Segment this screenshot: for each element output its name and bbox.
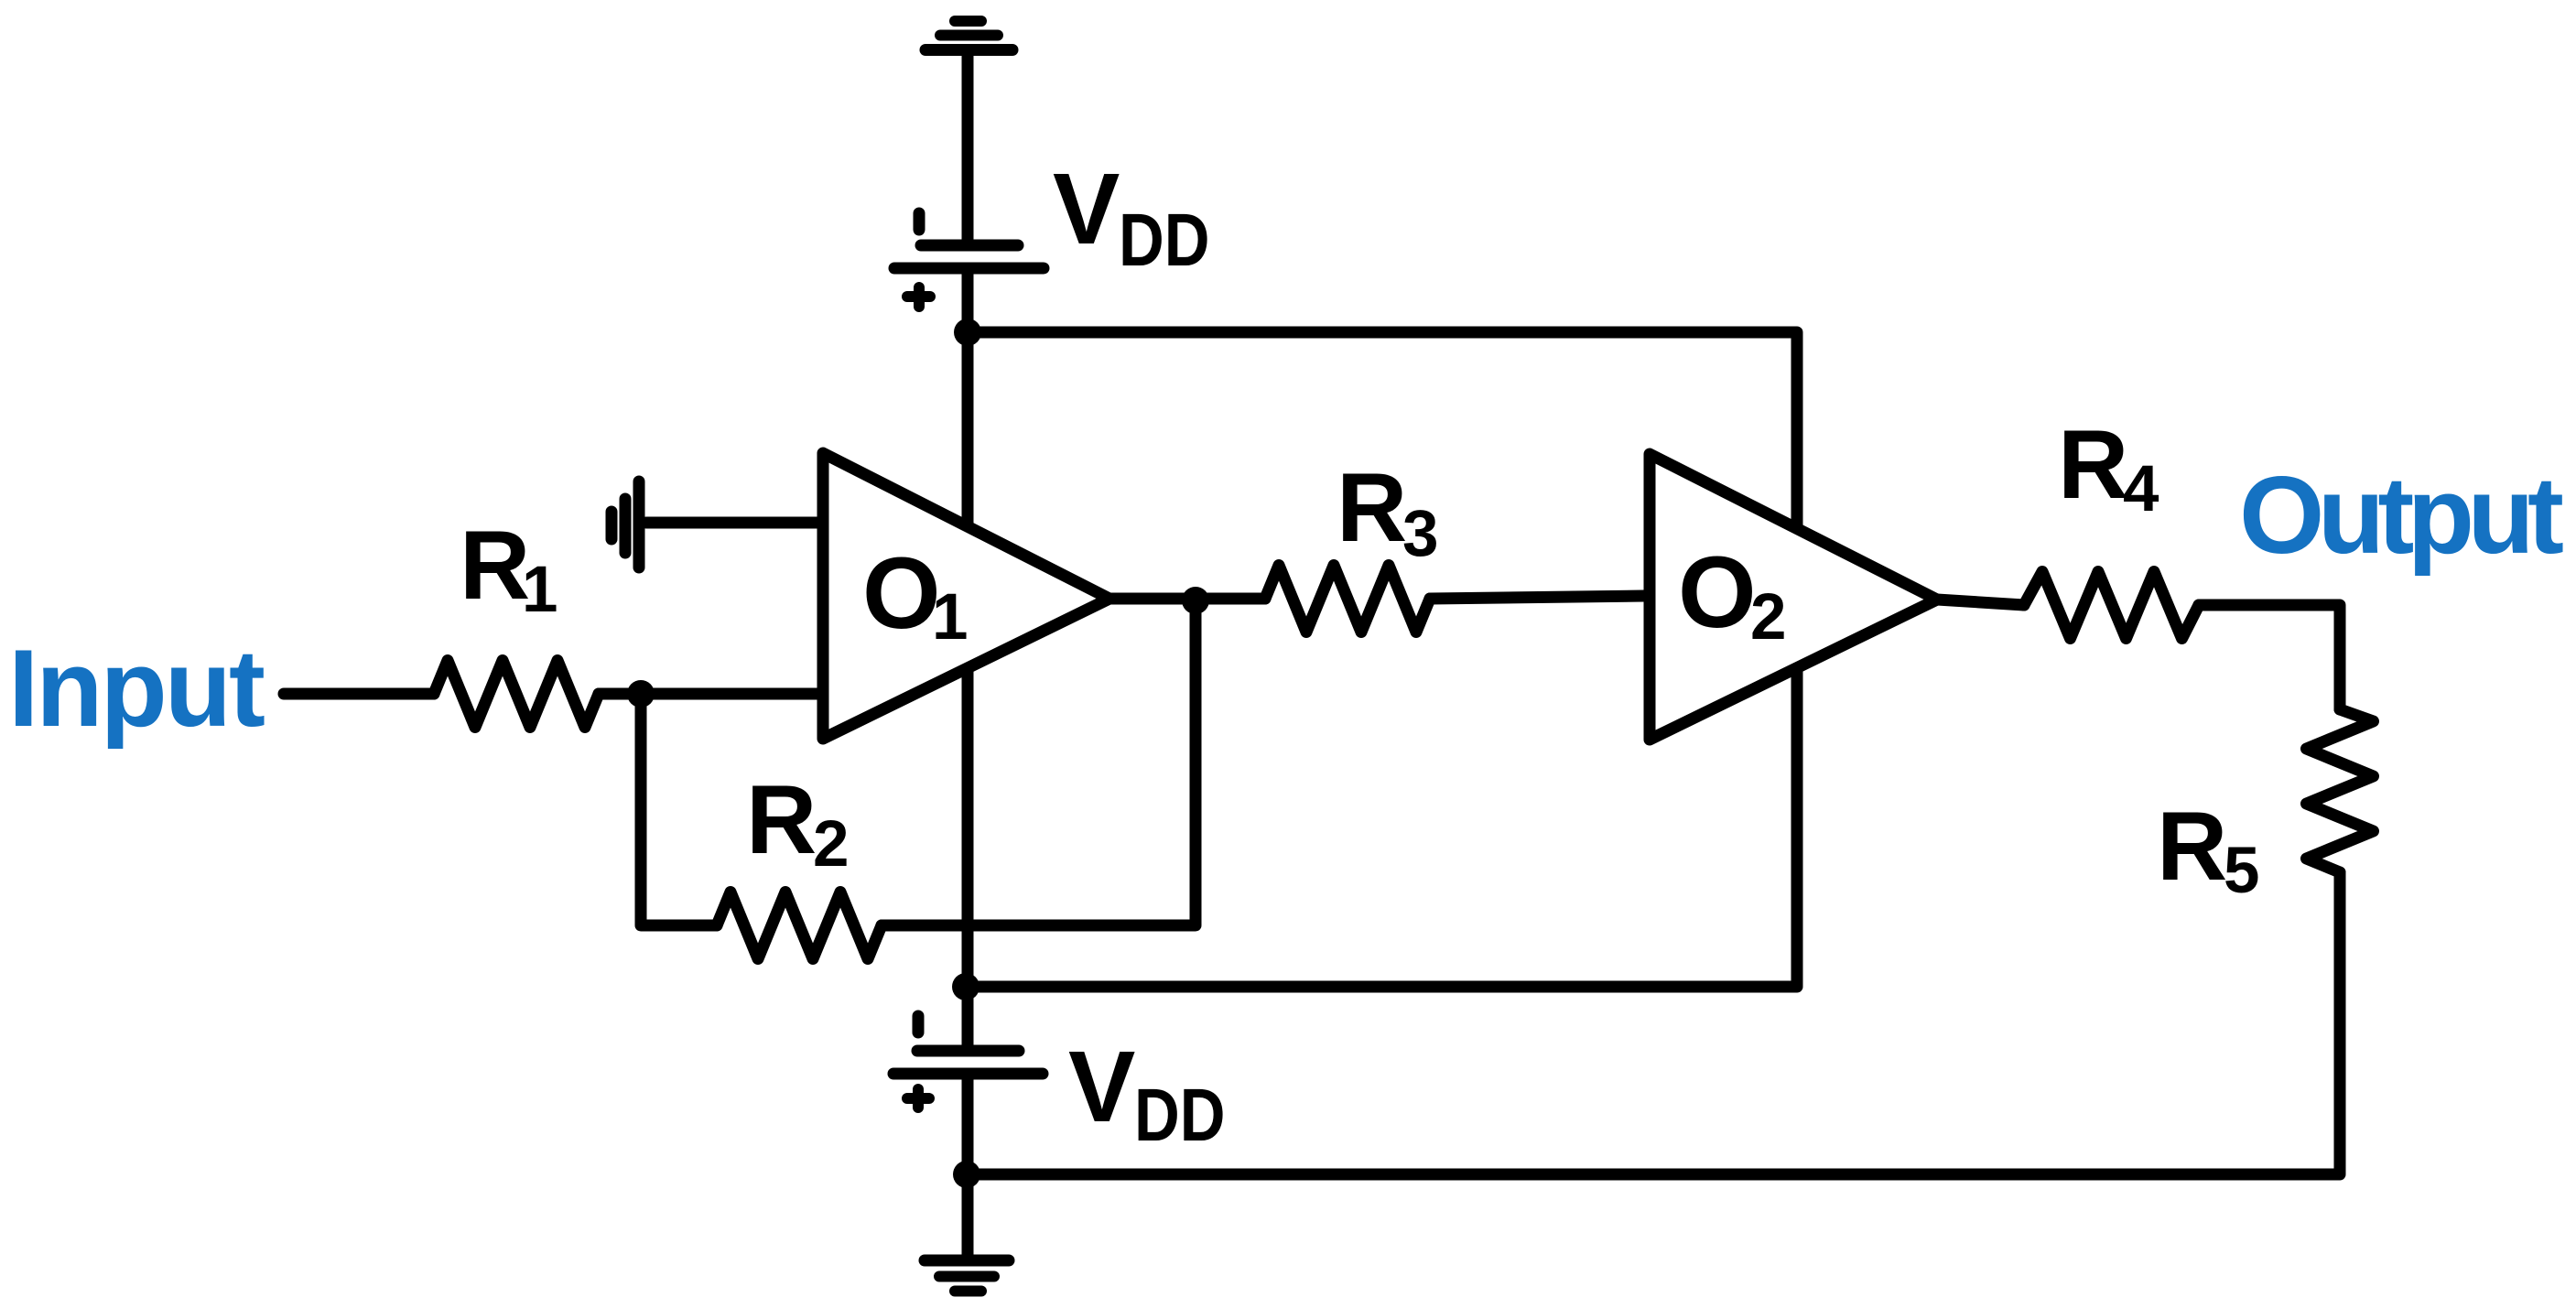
svg-text:R: R — [746, 764, 817, 874]
wire R1 to O1 inverting input — [599, 688, 817, 700]
battery V1 short plate — [921, 240, 1018, 252]
svg-text:1: 1 — [932, 581, 969, 654]
node bottom battery top rail — [952, 973, 980, 1000]
svg-text:2: 2 — [1750, 581, 1787, 654]
ground (bottom) — [925, 1260, 1009, 1292]
wire bottom battery to bottom ground — [962, 1077, 974, 1257]
svg-text:V: V — [1053, 153, 1120, 265]
svg-text:3: 3 — [1402, 498, 1439, 570]
op-amp O2 — [1650, 454, 1937, 740]
wire R3 to O2 input — [1430, 596, 1644, 599]
battery V2 (bottom VDD) minus tick — [913, 1016, 925, 1032]
wire input lead — [284, 688, 434, 700]
svg-text:O: O — [862, 537, 941, 650]
node bottom battery minus rail — [953, 1161, 980, 1188]
label R4 — [2058, 409, 2159, 525]
wire left ground to O1 upper input — [646, 517, 817, 529]
label R5 — [2157, 791, 2260, 907]
label O1 — [862, 537, 969, 654]
node R1 junction — [627, 680, 655, 708]
resistor R2 — [717, 892, 882, 959]
wire O2 output to R4 — [1937, 600, 2024, 605]
wire top rail VDD to O2 power and bottom rail back to battery node — [966, 332, 1797, 987]
svg-text:R: R — [1337, 452, 1407, 562]
svg-text:1: 1 — [522, 554, 558, 626]
node top battery to rail — [954, 319, 981, 346]
svg-text:V: V — [1068, 1031, 1135, 1143]
wire O1 output to R3 — [1109, 593, 1265, 605]
svg-text:4: 4 — [2123, 453, 2159, 525]
resistor R3 — [1265, 566, 1430, 632]
label R2 — [746, 764, 850, 881]
label VDD bottom — [1068, 1031, 1225, 1157]
wire VDD1 power line x=1057 (top ground to top battery) — [962, 53, 974, 241]
svg-text:R: R — [2058, 409, 2128, 519]
battery V1 plus sign — [907, 287, 930, 307]
battery V2 plus sign — [907, 1089, 929, 1108]
ground (top, inverted) — [925, 21, 1012, 50]
svg-text:5: 5 — [2224, 835, 2260, 907]
resistor R5 — [2307, 709, 2374, 872]
battery V2 long plate — [893, 1068, 1043, 1080]
ground (left, at O1 upper input) — [612, 481, 639, 568]
svg-text:2: 2 — [813, 808, 850, 881]
label R3 — [1337, 452, 1439, 570]
svg-text:R: R — [2157, 791, 2227, 901]
battery V2 short plate — [917, 1045, 1019, 1057]
svg-text:Input: Input — [8, 627, 265, 750]
wire R2 right to O1 output node — [882, 599, 1196, 925]
label O2 — [1678, 536, 1787, 654]
svg-text:O: O — [1678, 536, 1757, 649]
svg-text:DD: DD — [1119, 198, 1209, 282]
label VDD top — [1053, 153, 1209, 282]
wire VDD1 power line x=1057 (top battery to bottom battery, behind O1) — [962, 272, 974, 1047]
wire R2 branch: node below R1 down and to R2 — [641, 694, 717, 925]
svg-text:R: R — [460, 510, 530, 620]
svg-text:DD: DD — [1134, 1073, 1225, 1157]
wire R4 to output corner down to R5 — [2199, 605, 2340, 709]
label R1 — [460, 510, 558, 626]
op-amp O1 — [823, 453, 1109, 739]
wire bottom-most rail from battery minus node to R5 bottom — [967, 872, 2340, 1174]
resistor R1 — [434, 661, 599, 728]
resistor R4 — [2024, 572, 2199, 639]
battery V1 long plate — [894, 263, 1044, 275]
node O1 output — [1182, 587, 1209, 614]
svg-text:Output: Output — [2239, 454, 2564, 577]
battery V1 (top VDD) minus tick — [914, 213, 925, 230]
